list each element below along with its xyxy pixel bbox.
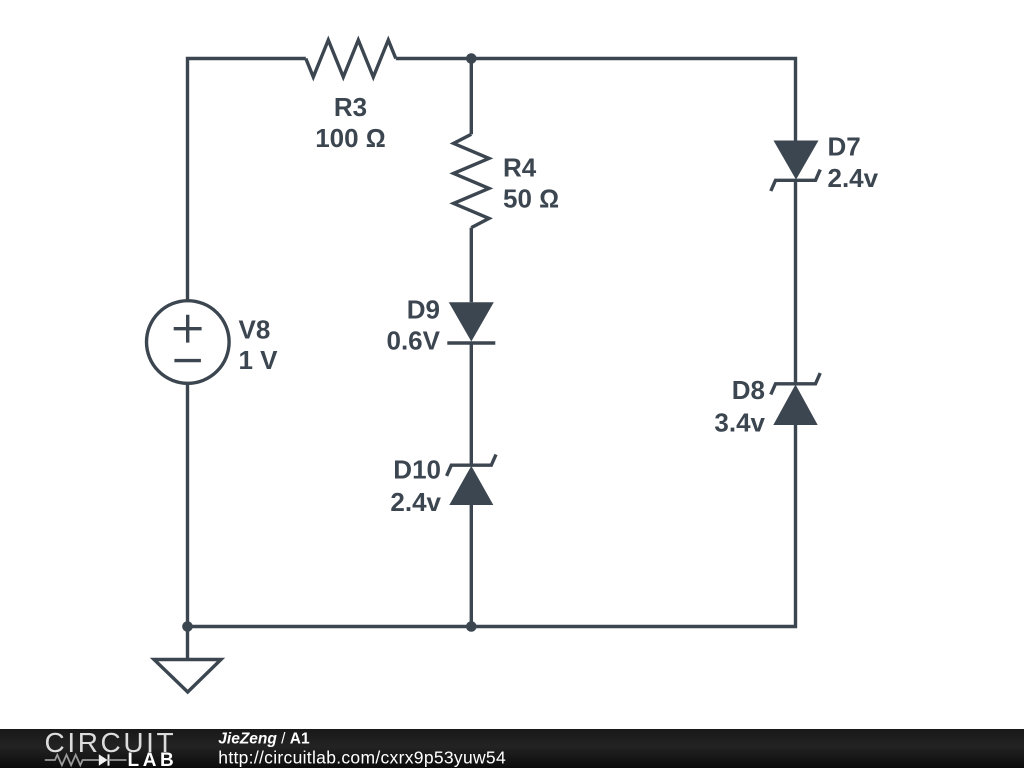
svg-text:D7: D7 xyxy=(828,132,861,162)
svg-text:JieZeng / A1: JieZeng / A1 xyxy=(218,730,310,747)
ground xyxy=(154,627,221,693)
wire: D8 anode down and bottom wire to ground node xyxy=(188,425,796,627)
svg-text:D10: D10 xyxy=(393,454,441,484)
resistor R3 xyxy=(306,40,396,77)
wire: D7 cathode to D8 cathode xyxy=(794,180,797,383)
svg-text:R4: R4 xyxy=(503,153,537,183)
D8 label "D8 / 3.4v" xyxy=(714,375,765,437)
logo resistor xyxy=(45,755,99,765)
svg-text:50 Ω: 50 Ω xyxy=(503,184,559,214)
junction node C (bottom middle) xyxy=(466,621,477,632)
R3 label "R3 / 100 Ω" xyxy=(315,92,386,153)
svg-text:2.4v: 2.4v xyxy=(828,163,879,193)
diode D9 (pointing down) xyxy=(447,302,495,343)
wire: D9 cathode to D10 xyxy=(470,343,473,465)
V8 label "V8 / 1 V" xyxy=(239,315,279,375)
wire: V8 bottom to bottom-left node xyxy=(186,383,189,626)
svg-text:http://circuitlab.com/cxrx9p53: http://circuitlab.com/cxrx9p53yuw54 xyxy=(218,748,506,768)
zener diode D7 (pointing down) xyxy=(771,141,820,192)
logo diode xyxy=(99,754,127,765)
junction node A (top middle) xyxy=(466,53,477,64)
svg-text:1 V: 1 V xyxy=(239,345,279,375)
wire top: R3 to node A and to right branch xyxy=(396,59,796,141)
svg-text:D9: D9 xyxy=(407,295,440,325)
wire left: top-left corner from V8 top to R3 xyxy=(188,59,306,301)
zener diode D10 (pointing up) xyxy=(447,455,496,506)
svg-text:V8: V8 xyxy=(239,315,271,345)
svg-text:R3: R3 xyxy=(334,92,367,122)
wire middle branch: node A down to R4 xyxy=(470,59,473,135)
svg-text:LAB: LAB xyxy=(128,750,178,768)
resistor R4 xyxy=(454,134,489,227)
zener diode D8 (pointing up) xyxy=(771,373,820,425)
svg-text:100 Ω: 100 Ω xyxy=(315,123,386,153)
wire: R4 to D9 anode xyxy=(470,228,473,303)
svg-text:0.6V: 0.6V xyxy=(387,326,441,356)
footer bar xyxy=(0,729,1024,768)
svg-text:2.4v: 2.4v xyxy=(390,487,441,517)
wire: D10 anode to bottom node B xyxy=(470,505,473,627)
D9 label "D9 / 0.6V" xyxy=(387,295,441,356)
junction node B (bottom left) xyxy=(182,621,193,632)
D7 label "D7 / 2.4v" xyxy=(828,132,879,194)
svg-text:3.4v: 3.4v xyxy=(714,407,765,437)
D10 label "D10 / 2.4v" xyxy=(390,454,441,517)
svg-text:D8: D8 xyxy=(732,375,765,405)
R4 label "R4 / 50 Ω" xyxy=(503,153,559,214)
voltage source V8 xyxy=(147,301,230,384)
